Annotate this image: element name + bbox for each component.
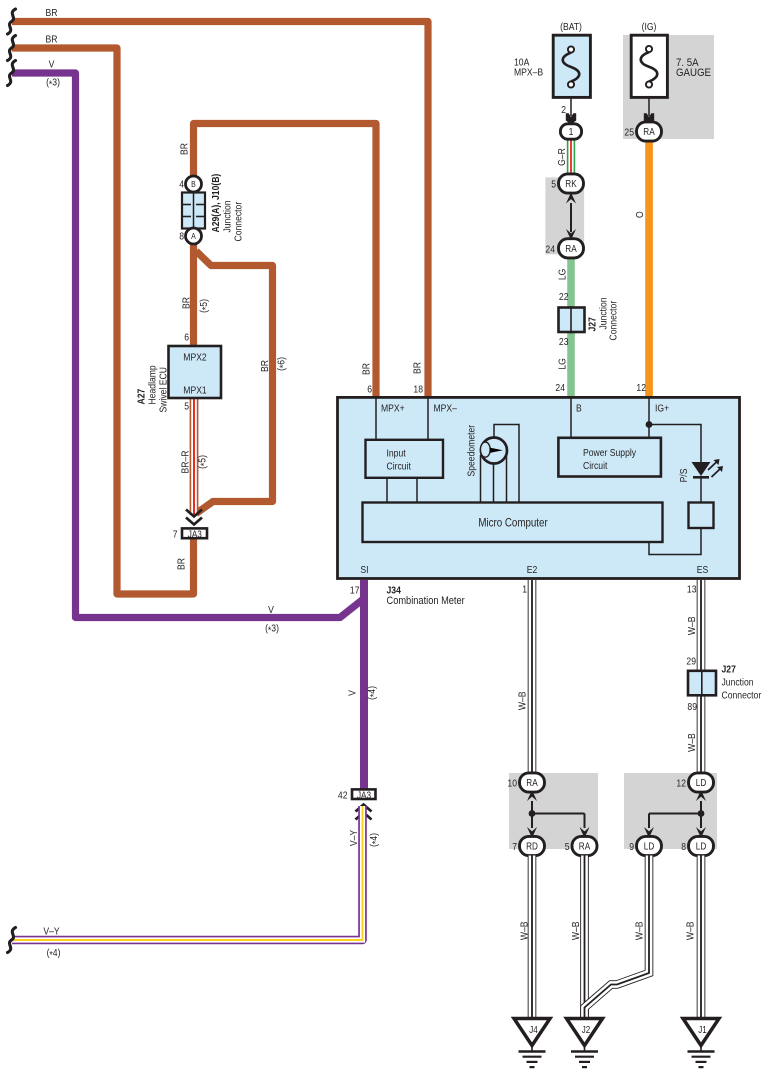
svg-text:LG: LG	[557, 269, 569, 280]
wire W-B from LD 8 to ground J1	[685, 856, 705, 1020]
svg-text:BR: BR	[176, 558, 188, 570]
pin 25 of gauge fuse to RA	[624, 98, 654, 139]
svg-text:Junction: Junction	[722, 677, 754, 689]
label V (*4) on vertical to JA3 42	[347, 686, 380, 700]
svg-text:13: 13	[687, 584, 697, 596]
svg-text:J4: J4	[529, 1024, 537, 1035]
pin 2 of fuse to connector 1	[561, 98, 576, 124]
svg-text:MPX1: MPX1	[183, 385, 206, 397]
connector RA 25	[637, 122, 662, 141]
svg-text:RD: RD	[526, 841, 538, 852]
combination meter J34 box	[338, 384, 740, 579]
svg-text:P/S: P/S	[678, 469, 690, 483]
svg-text:(*4): (*4)	[47, 947, 61, 961]
svg-text:5: 5	[565, 841, 570, 853]
svg-text:B: B	[191, 179, 196, 189]
ground J1	[683, 1019, 719, 1068]
svg-text:MPX–: MPX–	[434, 403, 458, 415]
svg-text:RA: RA	[526, 777, 538, 788]
svg-text:(BAT): (BAT)	[560, 21, 582, 33]
svg-text:24: 24	[545, 244, 555, 256]
speedometer	[466, 424, 519, 502]
svg-text:J1: J1	[698, 1024, 706, 1035]
svg-text:(*4): (*4)	[366, 686, 380, 700]
svg-text:SI: SI	[360, 564, 368, 576]
svg-text:BR: BR	[259, 360, 271, 372]
svg-text:LD: LD	[696, 841, 707, 852]
svg-text:Combination Meter: Combination Meter	[387, 595, 466, 607]
svg-text:W–B: W–B	[686, 733, 698, 752]
svg-text:2: 2	[561, 104, 566, 116]
wire BR second (to JA3 lower side)	[8, 34, 194, 594]
svg-text:GAUGE: GAUGE	[676, 68, 711, 80]
svg-text:10: 10	[507, 778, 517, 790]
svg-text:BR: BR	[412, 362, 424, 374]
svg-text:7: 7	[512, 841, 517, 853]
shield arrows out of JA3 pin 42	[356, 805, 372, 820]
svg-text:(IG): (IG)	[642, 21, 657, 33]
svg-text:89: 89	[687, 701, 697, 713]
svg-text:Power Supply: Power Supply	[583, 447, 636, 459]
input circuit to micro computer wires	[387, 478, 417, 503]
svg-text:BR: BR	[46, 34, 58, 46]
svg-text:W–B: W–B	[517, 691, 529, 710]
svg-text:V: V	[268, 604, 274, 616]
svg-text:(*3): (*3)	[265, 623, 279, 637]
wire V (violet, *3)	[8, 59, 365, 789]
svg-text:(*3): (*3)	[46, 77, 60, 91]
svg-text:RA: RA	[565, 243, 577, 254]
wire LG from RA 24 to meter pin 24 B	[555, 257, 574, 399]
svg-text:7: 7	[173, 529, 178, 541]
svg-text:JA3: JA3	[357, 790, 371, 801]
connector group LD12/LD9/LD8	[624, 773, 717, 856]
svg-text:W–B: W–B	[685, 921, 697, 940]
junction connector A29(A), J10(B)	[179, 174, 245, 244]
ground J4	[514, 1019, 550, 1068]
svg-text:5: 5	[184, 401, 189, 413]
fuse 7.5A GAUGE (IG)	[623, 21, 714, 139]
svg-text:ES: ES	[697, 564, 708, 576]
svg-text:W–B: W–B	[634, 921, 646, 940]
svg-text:BR: BR	[361, 363, 373, 375]
svg-text:J27: J27	[722, 664, 736, 676]
svg-text:23: 23	[559, 336, 569, 348]
svg-text:RA: RA	[579, 841, 591, 852]
svg-text:BR: BR	[179, 143, 191, 155]
ECU A27 Headlamp Swivel (MPX2/MPX1)	[136, 332, 221, 413]
wire O from RA 25 to meter pin 12 IG+	[634, 141, 653, 399]
wire W-B from E2 pin 1 to RA 10	[517, 580, 536, 773]
svg-text:4: 4	[179, 179, 184, 191]
svg-text:BR–R: BR–R	[180, 450, 192, 473]
svg-text:RA: RA	[643, 126, 655, 137]
svg-text:5: 5	[551, 179, 556, 191]
connector JA3 pin 42	[338, 789, 376, 801]
svg-text:LG: LG	[557, 358, 569, 369]
svg-text:(*6): (*6)	[276, 357, 290, 371]
wire BR top (to MPX- pin 18)	[8, 7, 429, 398]
svg-text:12: 12	[676, 778, 686, 790]
svg-text:18: 18	[413, 384, 423, 396]
svg-text:W–B: W–B	[686, 616, 698, 635]
svg-text:B: B	[576, 403, 582, 415]
svg-text:A: A	[191, 231, 196, 241]
svg-text:Connector: Connector	[608, 300, 620, 340]
svg-text:Micro Computer: Micro Computer	[478, 517, 548, 530]
wire BR junction-connector loop to MPX+ pin 6	[179, 124, 376, 399]
connector group RA10/RD7/RA5	[507, 773, 598, 856]
LED resistor box and return wire	[649, 477, 714, 555]
svg-text:29: 29	[686, 656, 696, 668]
svg-text:Swivel ECU: Swivel ECU	[158, 367, 170, 412]
wire BR from junction A to ECU pin 6	[181, 242, 212, 346]
micro computer block	[363, 503, 663, 543]
svg-text:A29(A), J10(B): A29(A), J10(B)	[210, 174, 222, 233]
shield arrows into JA3 pin 7	[186, 510, 202, 525]
svg-text:MPX2: MPX2	[183, 352, 206, 364]
svg-text:8: 8	[179, 231, 184, 243]
svg-text:BR: BR	[46, 7, 58, 19]
connector 1	[560, 124, 581, 139]
wire BR branch (*6)	[196, 251, 290, 514]
connector chain RK 5 / RA 24	[545, 174, 584, 258]
svg-text:1: 1	[569, 126, 574, 138]
svg-text:Circuit: Circuit	[387, 461, 412, 473]
svg-text:6: 6	[367, 384, 372, 396]
power supply circuit block	[558, 438, 661, 477]
junction connector J27 (pins 22/23)	[559, 297, 620, 340]
wire W-B from RA 5 to ground J2	[570, 856, 589, 1020]
input circuit block	[366, 440, 444, 478]
svg-text:24: 24	[555, 382, 565, 394]
svg-text:LD: LD	[696, 777, 707, 788]
svg-text:1: 1	[522, 584, 527, 596]
svg-text:BR: BR	[181, 297, 193, 309]
fuse 10A MPX-B (BAT)	[514, 21, 590, 97]
svg-text:Speedometer: Speedometer	[466, 424, 478, 476]
svg-text:W–B: W–B	[519, 921, 531, 940]
svg-text:W–B: W–B	[570, 921, 582, 940]
svg-text:6: 6	[184, 332, 189, 344]
svg-text:42: 42	[338, 790, 348, 802]
svg-text:(*5): (*5)	[197, 455, 211, 469]
svg-text:22: 22	[559, 291, 569, 303]
wire W-B from RD 7 to ground J4	[519, 856, 537, 1020]
svg-text:JA3: JA3	[188, 529, 202, 540]
wire W-B from LD 9 merging to ground J2	[585, 856, 650, 1020]
connector JA3 pin 7	[173, 528, 207, 540]
svg-text:E2: E2	[527, 564, 538, 576]
svg-text:25: 25	[624, 127, 634, 139]
svg-text:Connector: Connector	[233, 201, 245, 241]
svg-text:12: 12	[636, 382, 646, 394]
svg-text:(*4): (*4)	[368, 833, 382, 847]
svg-text:Connector: Connector	[722, 690, 762, 702]
svg-text:Circuit: Circuit	[583, 460, 608, 472]
ground J2	[567, 1019, 603, 1068]
wire G-R from connector 1 to RK	[556, 139, 575, 176]
svg-text:J2: J2	[582, 1024, 590, 1035]
svg-text:RK: RK	[565, 178, 576, 189]
svg-text:MPX–B: MPX–B	[514, 67, 543, 79]
svg-text:V: V	[49, 59, 55, 71]
meter designation J34 Combination Meter	[350, 585, 465, 608]
wire BR-R (*5) from MPX1 pin 5 to JA3	[180, 398, 211, 515]
svg-text:9: 9	[629, 841, 634, 853]
svg-text:IG+: IG+	[655, 403, 669, 415]
svg-text:V: V	[347, 690, 359, 696]
svg-text:V–Y: V–Y	[348, 829, 360, 846]
LED P/S indicator	[678, 459, 723, 482]
wire V-Y (*4)	[8, 806, 383, 961]
svg-text:17: 17	[350, 585, 360, 597]
junction connector J27 (pins 29/89)	[688, 664, 762, 702]
svg-text:8: 8	[681, 841, 686, 853]
wire W-B from ES pin 13 through J27 to LD 12	[686, 580, 705, 773]
svg-text:MPX+: MPX+	[381, 403, 405, 415]
svg-text:G–R: G–R	[556, 148, 568, 166]
meter bottom pin labels	[360, 564, 708, 576]
svg-text:V–Y: V–Y	[43, 926, 60, 938]
svg-text:(*5): (*5)	[198, 299, 212, 313]
svg-text:Input: Input	[387, 448, 406, 460]
svg-text:O: O	[634, 211, 646, 218]
svg-text:LD: LD	[644, 841, 655, 852]
